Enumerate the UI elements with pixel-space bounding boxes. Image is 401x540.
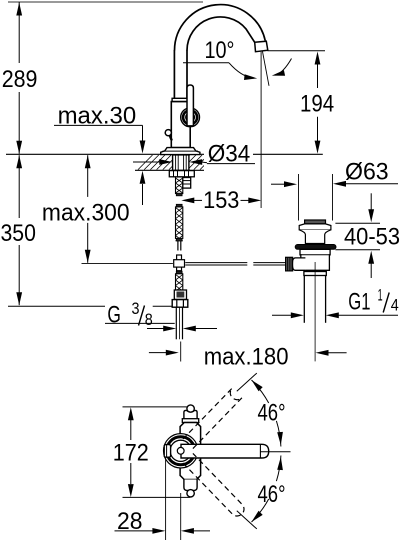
- pop-up rod tee fitting: [177, 255, 182, 271]
- spout left tube: [173, 50, 175, 98]
- dimension 40-53 extension lines: [335, 222, 380, 224]
- drain O-ring seal: [295, 245, 336, 250]
- wire: 350 bottom extension line: [8, 305, 105, 307]
- dimension G1 1/4: [272, 314, 291, 316]
- top view: handle hub: [177, 447, 184, 454]
- knurled adjuster cap: [286, 257, 293, 271]
- dimension Ø34 arrows: [133, 161, 160, 163]
- hose side fitting: [183, 178, 191, 189]
- deck top line: [6, 153, 204, 155]
- wire: vertical reference from spout tip: [260, 52, 262, 208]
- deck cross-section hatching: [138, 155, 215, 170]
- handle mid reference tick: [261, 451, 291, 453]
- top view: 172 extension lines: [123, 406, 188, 408]
- hose thin tube: [177, 241, 179, 251]
- drain plug flange skirt: [299, 224, 331, 230]
- 46 deg rotation arcs: [252, 380, 269, 403]
- dimension 350 vertical line: [18, 155, 20, 218]
- 10 deg underline: [183, 62, 229, 64]
- drain tailpipe: [303, 276, 305, 323]
- wire: extension line from spout top: [8, 1, 203, 3]
- dimension 153: [181, 198, 194, 204]
- dimension max.30 arrows: [142, 125, 144, 141]
- svg-text:172: 172: [113, 439, 149, 466]
- drain center line: [314, 262, 316, 361]
- wire: extension line from spout outlet: [267, 50, 325, 52]
- svg-text:1: 1: [378, 287, 383, 305]
- svg-text:194: 194: [300, 91, 334, 118]
- mounting nut below deck: [169, 171, 194, 177]
- dimension 172 vertical line: [130, 420, 132, 440]
- drain upper neck: [299, 230, 331, 244]
- dimension 289 vertical line: [18, 2, 20, 63]
- wire: 46 deg extension line bottom: [237, 511, 257, 529]
- dimension max.300 vertical line: [87, 155, 89, 197]
- drain side port: [292, 258, 305, 270]
- svg-text:350: 350: [1, 220, 36, 247]
- svg-text:max.300: max.300: [42, 199, 130, 226]
- G3/8 underline leader: [105, 322, 175, 324]
- faucet body column: [171, 102, 190, 148]
- deck bottom line: [135, 169, 204, 171]
- svg-text:max.180: max.180: [204, 344, 289, 371]
- wire: 10 deg slanted spout axis: [263, 52, 270, 86]
- 10 deg arc right with arrowhead: [276, 59, 292, 76]
- wire: extension line below G3/8 pipe: [180, 342, 182, 362]
- flexible hose upper section: [176, 177, 183, 194]
- handle lever bar: [187, 85, 193, 126]
- hose end connector: [174, 290, 186, 299]
- svg-text:4: 4: [391, 296, 399, 314]
- svg-text:40-53: 40-53: [344, 224, 400, 251]
- dashed handle rotated up 46 deg: [183, 388, 242, 449]
- horizontal pop-up rod (thin left segment): [82, 263, 173, 265]
- top view: lower block: [184, 480, 197, 491]
- top view: lower port circle: [187, 490, 194, 497]
- handle rosette rings: [181, 108, 200, 127]
- top view: left tab: [164, 445, 170, 458]
- top view: rosette circles: [164, 434, 198, 468]
- faucet spout gooseneck inner arc: [187, 17, 255, 50]
- threaded shank through deck: [173, 155, 189, 170]
- drain collar: [304, 272, 326, 276]
- top view: upper port circle: [187, 405, 194, 412]
- flexible hose middle section: [176, 204, 182, 207]
- drain body: [300, 249, 330, 270]
- svg-text:46°: 46°: [258, 481, 286, 508]
- spout outlet tip block: [255, 41, 268, 52]
- pop-up rod knob: [165, 130, 171, 136]
- svg-text:G1: G1: [348, 288, 370, 315]
- dimension 194 vertical line: [317, 64, 319, 88]
- G3/8 pipe: [175, 307, 177, 339]
- flexible hose lower section: [176, 271, 182, 274]
- svg-text:46°: 46°: [258, 399, 286, 426]
- faucet base flange: [161, 148, 200, 155]
- top view: upper block: [184, 410, 197, 418]
- wire: 46 deg extension line top: [237, 373, 257, 391]
- wire: 28 extension lines: [165, 458, 167, 540]
- svg-text:153: 153: [203, 187, 239, 214]
- svg-text:10°: 10°: [205, 37, 235, 64]
- 10 deg arc left with arrowhead: [229, 63, 254, 79]
- top view: handle bar: [181, 444, 269, 458]
- faucet spout gooseneck outer arc: [175, 5, 266, 51]
- dimension 28 arrows: [152, 528, 165, 534]
- top view: main body: [180, 423, 201, 480]
- svg-text:3: 3: [132, 300, 140, 318]
- drain plug top disc: [305, 220, 326, 224]
- svg-text:8: 8: [145, 311, 153, 329]
- drain Ø63 extension lines: [298, 174, 300, 221]
- svg-text:G: G: [107, 302, 121, 329]
- horizontal pop-up rod (double line): [185, 262, 247, 264]
- tube joint ring: [172, 98, 188, 101]
- dimension 40-53 arrows: [370, 193, 372, 210]
- G3/8 nut: [172, 300, 188, 308]
- dimension G3/8 arrows: [147, 328, 164, 330]
- svg-text:Ø63: Ø63: [345, 159, 389, 186]
- dimension Ø63: [271, 183, 285, 185]
- dimension max.180: [149, 352, 166, 354]
- svg-text:289: 289: [2, 66, 38, 93]
